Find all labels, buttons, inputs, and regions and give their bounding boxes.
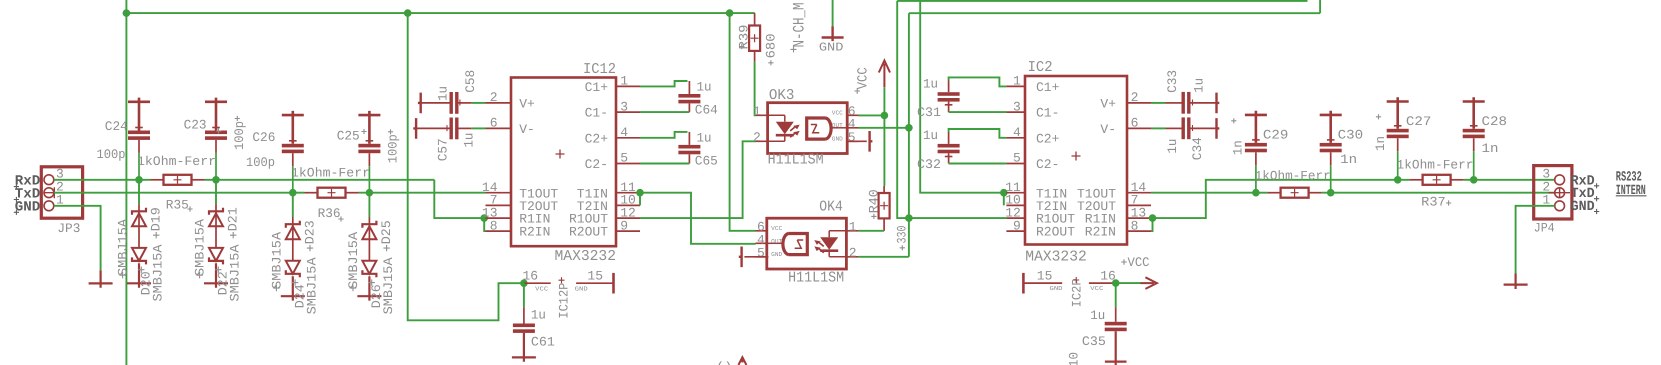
IC2 pin 2 V+ [1127,102,1151,104]
svg-text:C1+: C1+ [1036,80,1060,95]
optocoupler OK4 H11L1SM [756,218,859,269]
svg-text:R36: R36 [318,206,341,221]
svg-text:D23: D23 [302,220,317,244]
IC12 pin 11 T1IN [616,192,640,194]
svg-text:GND: GND [819,41,844,55]
IC12 pin 12 R1OUT [616,217,640,219]
wire T1OUT right [1151,192,1256,194]
ground below D23/D24 [281,276,305,300]
svg-text:1kOhm-Ferr: 1kOhm-Ferr [137,154,216,169]
wire JP4 pin1 to ground [1516,206,1555,274]
capacitor C32 [948,132,950,144]
svg-text:JP3: JP3 [57,221,80,236]
junction IC2 T1IN/T2IN [1000,189,1008,197]
svg-text:1kOhm-Ferr: 1kOhm-Ferr [291,165,370,180]
svg-text:100p: 100p [232,121,247,150]
svg-text:C26: C26 [252,130,275,145]
svg-text:MAX3232: MAX3232 [1025,248,1087,265]
svg-text:5: 5 [1013,151,1021,166]
svg-text:16: 16 [523,269,539,284]
optocoupler OK3 H11L1SM [768,103,848,154]
svg-text:C58: C58 [463,70,478,93]
diodes D19 D20 SMBJ15A [138,180,140,204]
ground below JP4 [1504,274,1528,290]
wire inner rail [909,12,1320,14]
svg-text:SMBJ15A: SMBJ15A [269,232,284,289]
diodes D25 D26 SMBJ15A [368,193,370,217]
wire pin5 to C65 [640,163,689,165]
ground top [832,0,834,26]
resistor 1kOhm-Ferr (TxD2) [1268,192,1281,194]
svg-text:SMBJ15A: SMBJ15A [116,219,131,276]
svg-text:GND: GND [1571,199,1595,215]
capacitor C24 [128,98,150,131]
svg-text:H11L1SM: H11L1SM [788,270,844,287]
svg-text:IC12P: IC12P [557,282,572,318]
svg-text:3: 3 [620,99,628,114]
IC2 pin 3 C1- [1006,111,1025,113]
svg-text:OK3: OK3 [769,87,795,104]
junction R1IN/R2IN IC2 [1149,214,1157,222]
svg-text:10: 10 [1067,352,1082,365]
svg-text:C25: C25 [337,129,360,144]
svg-text:GND: GND [832,136,843,143]
svg-text:D20: D20 [139,271,154,295]
wire C32 to pin4 [949,129,1007,138]
svg-text:3: 3 [1013,99,1021,114]
svg-text:H11L1SM: H11L1SM [768,152,824,169]
svg-text:4: 4 [620,125,628,140]
junction IC12P VCC [520,279,528,287]
wire T1IN-T2IN tie [639,193,641,206]
svg-text:1u: 1u [697,79,712,94]
resistor R39 680 [754,13,756,25]
svg-text:D19: D19 [149,207,164,231]
svg-text:OUT: OUT [771,238,782,245]
wire VCC down to R40 [883,115,885,186]
svg-text:D24: D24 [292,284,307,308]
svg-text:VCC: VCC [832,109,843,116]
svg-text:C2+: C2+ [585,131,609,146]
connector JP3 [41,167,82,218]
svg-text:C1-: C1- [585,106,608,121]
IC2 pin 7 T2OUT [1127,204,1151,206]
svg-text:OUT: OUT [832,122,843,129]
svg-text:2: 2 [849,245,857,260]
svg-text:6: 6 [1131,116,1139,131]
ground at OK4 pin5 [744,256,768,258]
svg-text:5: 5 [848,130,856,145]
ground right of C34 [1217,118,1220,139]
IC12 pin 3 C1- [616,111,640,113]
svg-text:V-: V- [1100,122,1116,137]
svg-text:6: 6 [490,116,498,131]
junction IC2P VCC [1112,279,1120,287]
wire TxD JP3 to R36 [54,192,305,194]
svg-text:V+: V+ [1100,97,1116,112]
ground at OK3 pin5 [847,140,867,142]
svg-text:15: 15 [587,269,603,284]
svg-text:C2+: C2+ [1036,131,1060,146]
svg-text:1u: 1u [1165,139,1180,154]
ground below D19/D20 [127,263,151,287]
svg-text:1u: 1u [461,133,476,148]
supply VCC arrow [879,61,890,88]
svg-text:100p: 100p [97,147,126,162]
capacitor C35 [1115,283,1117,307]
svg-text:R2OUT: R2OUT [1036,225,1075,240]
svg-text:MAX3232: MAX3232 [555,248,617,265]
IC2 pin 12 R1OUT [1006,217,1025,219]
svg-text:100p: 100p [246,155,275,170]
svg-text:OK4: OK4 [819,199,843,216]
junction rail/x408 [404,9,412,17]
IC12 pin 6 V- [486,127,512,129]
svg-text:1u: 1u [1090,308,1105,323]
IC2 pin 4 C2+ [1006,137,1025,139]
wire RxD jog down to R1IN [434,180,484,218]
svg-text:C35: C35 [1082,334,1106,349]
svg-text:R35: R35 [166,198,189,213]
svg-text:C23: C23 [184,118,207,133]
svg-text:1n: 1n [1373,136,1388,151]
svg-text:D26: D26 [369,284,384,308]
svg-text:1n: 1n [1482,141,1499,156]
svg-text:R37: R37 [1421,194,1446,209]
IC12 pin 14 T1OUT [486,192,512,194]
IC2 pin 6 V- [1127,127,1151,129]
svg-text:1u: 1u [531,308,546,323]
diodes D21 D22 SMBJ15A [215,180,217,204]
resistor R35 1kOhm-Ferr [151,179,164,181]
svg-text:1: 1 [849,219,857,234]
svg-text:R40: R40 [866,189,881,213]
junction TxD/C26 [289,189,297,197]
IC2 pin 9 R2OUT [1006,230,1025,232]
wire C31 to pin3 [949,111,1007,113]
resistor R40 330 [883,186,885,193]
svg-text:VCC: VCC [535,285,548,292]
svg-text:5: 5 [620,151,628,166]
svg-text:V-: V- [519,122,535,137]
junction RxD2/C27 [1394,176,1402,184]
wire x897 vertical [897,1,909,218]
wire x920 to IC2 T1IN [920,0,1004,193]
svg-text:8: 8 [1131,218,1139,233]
junction TxD/C25 [366,189,374,197]
svg-text:2: 2 [490,90,498,105]
wire pin1 to C64 [640,81,688,86]
svg-text:IC2: IC2 [1028,59,1053,76]
IC12 pin 4 C2+ [616,137,640,139]
IC2 pin 13 R1IN [1127,217,1151,219]
junction VCC/OK3 pin6 [881,112,889,120]
ground below D25/D26 [357,276,381,300]
junction rail/x730 [726,9,734,17]
svg-text:GND: GND [771,251,782,258]
IC2P pin 16 VCC [1089,282,1116,284]
supply VCC arrow right [1116,282,1141,284]
svg-text:C32: C32 [917,157,941,172]
svg-text:8: 8 [490,218,498,233]
junction R1IN/R2IN [480,214,488,222]
svg-text:C1-: C1- [1036,106,1059,121]
wire R39 to OK3 pin1 [754,62,757,116]
wire VCC arrow down [883,87,885,115]
svg-text:1: 1 [753,104,761,119]
IC2 pin 10 T2IN [1006,204,1025,206]
wire x408 down to IC12P VCC [408,13,521,320]
svg-text:C31: C31 [917,105,941,120]
svg-text:C2-: C2- [585,157,608,172]
capacitor C28 [1463,97,1485,129]
JP3 origin cross [44,187,66,198]
resistor R36 1kOhm-Ferr [305,192,318,194]
svg-text:2: 2 [753,130,761,145]
svg-text:15: 15 [1037,269,1053,284]
svg-text:9: 9 [620,218,628,233]
wire RxD R35 to jog [205,179,435,181]
junction RxD2/C28 [1470,176,1478,184]
capacitor C30 [1320,111,1342,143]
svg-text:VCC: VCC [855,67,871,89]
svg-text:C65: C65 [695,154,718,169]
wire from top edge x1320 [1319,0,1321,13]
wire pin4 to C65 [640,132,688,138]
connector JP4 [1534,166,1572,219]
svg-text:1: 1 [620,74,628,89]
capacitor C61 [523,283,525,307]
svg-text:C33: C33 [1165,70,1180,93]
ground left of C58 [418,93,421,114]
ground right of C33 [1217,93,1220,114]
svg-text:1u: 1u [923,128,938,143]
ground below C61 [512,333,536,362]
svg-text:VCC: VCC [1128,255,1150,270]
svg-text:JP4: JP4 [1534,221,1555,236]
wire rail top edge [897,0,1307,2]
junction rail/x126 [123,9,131,17]
wire RxD2 R37 to JP4 [1464,179,1555,181]
wire C32 to pin5 [949,163,1007,165]
JP4 origin cross [1549,187,1571,198]
IC12 pin 5 C2- [616,163,640,165]
svg-text:5: 5 [757,245,765,260]
svg-text:1n: 1n [1231,140,1246,155]
svg-text:SMBJ15A: SMBJ15A [193,219,208,276]
wire R1OUT to OK3 pin2 [640,141,756,218]
svg-text:9: 9 [1013,218,1021,233]
junction TxD2/C30 [1327,189,1335,197]
svg-text:D22: D22 [216,271,231,295]
IC2 pin 14 T1OUT [1127,192,1151,194]
svg-text:1kOhm-Ferr: 1kOhm-Ferr [1397,157,1474,172]
capacitor C34 [1151,127,1166,129]
svg-text:INTERN: INTERN [1616,183,1646,199]
capacitor C27 [1387,97,1409,129]
wire T1IN to OK4 OUT [640,193,756,244]
svg-text:1n: 1n [1340,152,1357,167]
IC12 pin 10 T2IN [616,204,640,206]
IC12 pin 1 C1+ [616,85,640,87]
svg-text:(): () [716,361,733,365]
wire OK3 OUT [859,127,909,129]
svg-text:1kOhm-Ferr: 1kOhm-Ferr [1255,168,1331,183]
junction x909/R1OUT [905,214,913,222]
svg-text:1: 1 [1013,74,1021,89]
resistor R37 1kOhm-Ferr [1410,179,1423,181]
svg-text:V+: V+ [519,97,535,112]
svg-text:1u: 1u [923,76,938,91]
capacitor C33 [1151,102,1166,104]
svg-text:C2-: C2- [1036,157,1059,172]
diodes D23 D24 SMBJ15A [292,193,294,217]
ground below D21/D22 [204,263,228,287]
svg-text:D25: D25 [379,220,394,244]
svg-text:C29: C29 [1263,128,1289,143]
junction TxD2/C29 [1252,189,1260,197]
svg-text:1u: 1u [1192,78,1207,93]
svg-text:R39: R39 [736,25,751,50]
svg-text:D21: D21 [226,207,241,231]
svg-text:C57: C57 [436,138,451,161]
svg-text:100p: 100p [385,134,400,163]
junction OK3 OUT [905,124,913,132]
svg-text:2: 2 [1131,90,1139,105]
wire top rail y=13.1 [126,12,754,14]
IC2 pin 11 T1IN [1006,192,1025,194]
junction RxD/C23 [212,176,220,184]
wire T1IN-T2IN tie IC2 [1003,193,1005,206]
ground below JP3 [89,270,113,287]
capacitor C29 [1245,111,1267,143]
svg-text:C64: C64 [695,103,718,118]
wire to R2IN IC2 [1151,218,1153,231]
svg-text:R2IN: R2IN [1085,225,1116,240]
wire TxD2 to JP4 [1322,192,1555,194]
wire R1IN jog up to RxD2 [1153,180,1410,218]
svg-text:IC12: IC12 [583,61,616,78]
svg-text:R2OUT: R2OUT [569,225,608,240]
svg-text:GND: GND [575,285,588,292]
svg-text:1u: 1u [697,130,712,145]
svg-text:GND: GND [1050,285,1063,292]
wire vertical VCC rail x=126 [125,0,127,365]
wire pin3 to C64 [640,111,689,113]
svg-text:680: 680 [764,33,779,58]
wire to R2IN [484,218,485,231]
wire OK3 pin6 to VCC [859,114,885,116]
svg-text:4: 4 [1013,125,1021,140]
svg-text:SMBJ15A: SMBJ15A [346,232,361,289]
svg-text:IC2P: IC2P [1070,278,1085,307]
svg-text:C61: C61 [531,334,555,349]
IC2 pin 8 R2IN [1127,230,1151,232]
op-amp IC12 MAX3232 [511,78,616,247]
IC12P pin 16 VCC [524,282,551,284]
svg-text:VCC: VCC [771,225,782,232]
junction T1IN/T2IN [636,189,644,197]
svg-text:330: 330 [895,226,910,244]
svg-text:1u: 1u [436,86,451,101]
IC2P pin 15 GND [1022,273,1025,294]
ground left of C57 [413,118,416,139]
svg-text:C30: C30 [1338,128,1364,143]
IC12 pin 13 R1IN [486,217,512,219]
wire C31 to pin1 [949,77,1007,86]
wire x909 vertical [908,13,910,257]
junction RxD/C24 [135,176,143,184]
svg-text:VCC: VCC [1090,285,1103,292]
wire OK4 pin1 to R40 [859,230,885,232]
svg-text:C24: C24 [105,119,128,134]
wire TxD R36 to T1OUT [359,192,486,194]
wire JP3 pin1 to ground [54,206,101,271]
IC2 pin 1 C1+ [1006,85,1025,87]
svg-text:GND: GND [15,199,41,215]
capacitor C26 [282,111,304,144]
svg-text:N-CH_M: N-CH_M [791,3,809,48]
wire to IC2 R1OUT [909,217,1007,219]
op-amp IC2 MAX3232 [1025,76,1127,245]
svg-text:C28: C28 [1482,114,1508,129]
svg-text:C1+: C1+ [585,80,609,95]
IC12 pin 7 T2OUT [486,204,512,206]
IC12 pin 2 V+ [486,102,512,104]
svg-text:C34: C34 [1190,137,1205,160]
IC12 pin 8 R2IN [486,230,512,232]
svg-text:R2IN: R2IN [519,225,550,240]
IC12 pin 9 R2OUT [616,230,640,232]
IC2 pin 5 C2- [1006,163,1025,165]
capacitor C23 [205,98,227,131]
wire RxD JP3 to R35 [54,179,151,181]
capacitor C31 [948,81,950,93]
wire x730 down to OK4 pin6 [730,13,756,231]
wire to OK4 pin2 [859,256,909,258]
IC12P pin 15 GND [576,282,613,284]
svg-text:C27: C27 [1406,114,1432,129]
capacitor C25 [358,111,380,144]
